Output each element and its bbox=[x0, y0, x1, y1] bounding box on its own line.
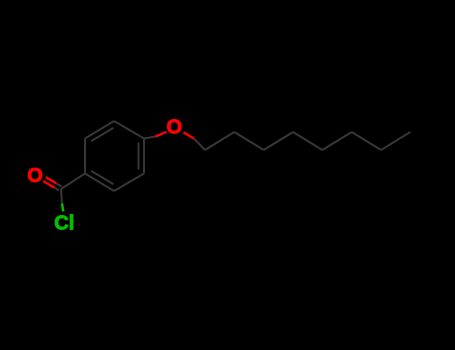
bond C-Cl bbox=[61, 189, 62, 204]
ether bonds bbox=[144, 132, 205, 150]
wire bond O to chain C1' bbox=[184, 132, 195, 138]
wire bond ring C1 to O bbox=[144, 137, 156, 139]
svg-text:Cl: Cl bbox=[54, 213, 74, 235]
wire chain C4'-C5' bbox=[293, 132, 322, 150]
wire chain C1'-C2' bbox=[205, 132, 234, 150]
wire ring bond C4-C5 double bbox=[85, 174, 114, 192]
carbonyl C=O line 1 bbox=[46, 177, 57, 183]
wire ring bond C3-C4 bbox=[84, 139, 86, 174]
wire ring bond C2-C3 double bbox=[85, 121, 114, 139]
svg-text:O: O bbox=[167, 116, 183, 138]
acyl chloride group bbox=[43, 174, 85, 212]
wire ring bond C5-C6 bbox=[114, 174, 144, 192]
carbonyl C=O line 2 bbox=[43, 181, 54, 188]
wire chain C6'-C7' bbox=[352, 132, 381, 150]
benzene ring bbox=[85, 121, 144, 191]
wire bond ring C4 to acyl C bbox=[61, 174, 85, 190]
octyl chain bbox=[205, 132, 410, 150]
wire chain C5'-C6' bbox=[322, 132, 351, 150]
wire chain C3'-C4' bbox=[264, 132, 293, 150]
wire ring bond C1-C2 bbox=[114, 121, 144, 139]
wire chain C2'-C3' bbox=[234, 132, 263, 150]
svg-text:O: O bbox=[27, 165, 43, 187]
wire ring bond C6-C1 double bbox=[143, 139, 145, 174]
wire chain C7'-C8' bbox=[381, 132, 410, 150]
